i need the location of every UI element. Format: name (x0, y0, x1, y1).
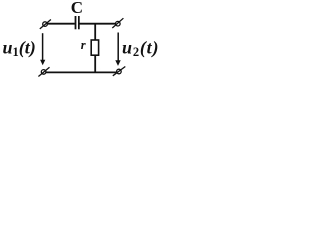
capacitor C1 plates (75, 16, 77, 29)
background (0, 0, 169, 86)
voltage arrow u2 (115, 33, 120, 66)
svg-text:r: r (81, 38, 86, 52)
wire resistor bottom (94, 55, 96, 72)
terminal top-right (112, 18, 123, 28)
svg-text:u1(t): u1(t) (3, 37, 36, 59)
svg-text:u2(t): u2(t) (122, 37, 159, 59)
wire top-left (terminal 1 to capacitor) (47, 23, 75, 25)
wire top-right (capacitor to terminal 2) (79, 23, 115, 25)
svg-text:C: C (71, 0, 83, 17)
terminal bottom-left (38, 67, 49, 76)
terminal bottom-right (113, 67, 126, 76)
terminal top-left (40, 20, 51, 29)
voltage arrow u1 (40, 33, 45, 65)
wire bottom (46, 71, 116, 73)
resistor r body (91, 40, 98, 55)
node junction top (resistor branch) (94, 23, 96, 41)
